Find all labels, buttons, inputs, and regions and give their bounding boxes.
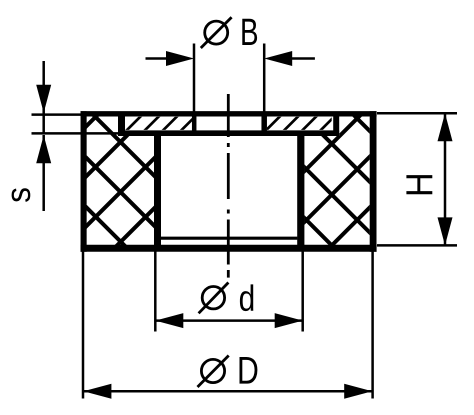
bore cavity left wall bbox=[154, 133, 161, 248]
letter H of label H (rotated) bbox=[406, 175, 432, 194]
dimension H extension and dimension lines bbox=[377, 113, 457, 245]
dimension ØD extension and dimension lines bbox=[83, 252, 373, 399]
letter d of label Ød bbox=[240, 284, 253, 311]
dimension ØB arrowheads bbox=[166, 51, 292, 66]
vertical centerline (dash-dot) bbox=[227, 94, 230, 278]
rubber cross-hatch left block bbox=[80, 48, 165, 287]
washer hole right edge (bore B) bbox=[261, 115, 267, 133]
dimension H arrowheads bbox=[438, 113, 453, 245]
letter D of label ØD bbox=[240, 357, 258, 384]
letter B of label ØB bbox=[242, 19, 257, 45]
buffer body top edge bbox=[81, 111, 377, 116]
buffer body bottom edge bbox=[81, 245, 377, 252]
dimension s arrowheads bbox=[36, 85, 51, 163]
rubber cross-hatch right block bbox=[298, 59, 378, 291]
dimension Ød arrowheads bbox=[155, 313, 302, 328]
washer plate bottom edge bbox=[118, 130, 339, 136]
diameter symbol of label ØB bbox=[201, 17, 232, 48]
dimension s extension and leader lines bbox=[32, 61, 121, 211]
washer plate right edge bbox=[333, 114, 339, 134]
dimension ØB extension and leader lines bbox=[146, 44, 315, 114]
buffer body left edge bbox=[81, 111, 87, 252]
washer hole left edge (bore B) bbox=[192, 115, 197, 133]
dimension ØD arrowheads bbox=[83, 384, 372, 399]
bore cavity right wall bbox=[297, 133, 304, 248]
washer plate section hatch left bbox=[107, 115, 197, 132]
washer plate section hatch right bbox=[264, 115, 336, 132]
washer plate left edge bbox=[118, 114, 125, 134]
buffer body right edge bbox=[370, 111, 377, 252]
letter s of label s (rotated) bbox=[12, 188, 31, 202]
bore cavity bottom edge line bbox=[161, 237, 297, 240]
diameter symbol of label ØD bbox=[198, 356, 229, 388]
dimension Ød extension and dimension lines bbox=[155, 251, 302, 332]
diameter symbol of label Ød bbox=[199, 283, 229, 314]
